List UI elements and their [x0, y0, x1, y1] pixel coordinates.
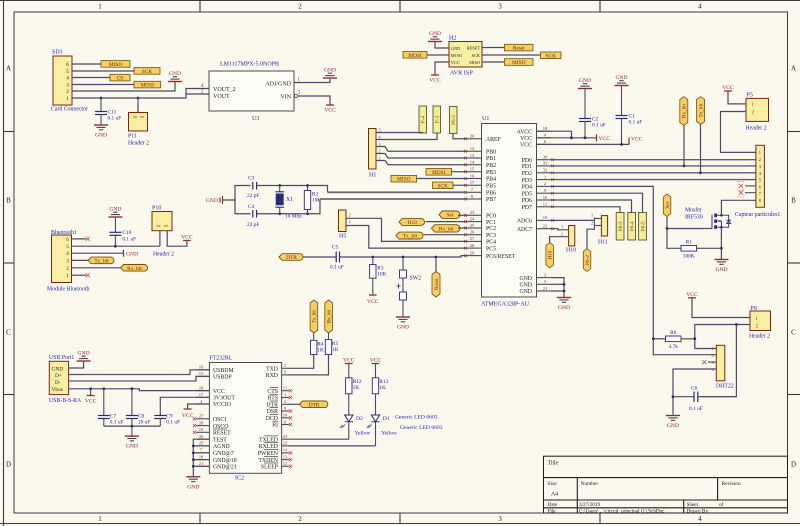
wire SD1.5 to SCK	[72, 70, 134, 72]
header H5	[339, 210, 352, 240]
wire SCK to PB5	[453, 184, 466, 186]
svg-text:USBDM: USBDM	[213, 368, 234, 374]
svg-text:0.1 uF: 0.1 uF	[592, 123, 606, 129]
svg-text:MISO: MISO	[109, 62, 123, 68]
svg-text:GND: GND	[667, 423, 679, 429]
svg-text:RXD: RXD	[266, 373, 278, 379]
junction P9.2 C6	[735, 323, 738, 326]
svg-text:Set: Set	[447, 213, 454, 219]
svg-text:Rx_blt: Rx_blt	[127, 266, 142, 272]
wire TXLED to D2	[289, 438, 349, 440]
svg-text:27: 27	[199, 414, 204, 419]
svg-text:26: 26	[470, 230, 475, 235]
svg-text:13: 13	[283, 454, 288, 459]
svg-text:GND: GND	[169, 71, 181, 77]
svg-text:PB7: PB7	[486, 197, 496, 203]
wire SD1.1 net	[72, 94, 209, 98]
svg-text:SCK: SCK	[438, 183, 449, 189]
wire H1.3 to PB0	[376, 147, 466, 152]
wire U3 ADJ to GND	[294, 78, 330, 83]
wire H1.2 to PB1	[376, 154, 466, 159]
svg-text:PD6: PD6	[522, 198, 532, 204]
svg-text:C8: C8	[138, 413, 145, 419]
svg-text:GND: GND	[109, 207, 121, 213]
svg-text:Revision: Revision	[722, 481, 741, 487]
port CS	[110, 74, 130, 81]
junction reset port	[434, 256, 437, 259]
port P6-4 vertical	[628, 213, 636, 241]
svg-text:1K: 1K	[332, 347, 339, 353]
svg-text:IC2: IC2	[235, 476, 244, 482]
wire H1.4 to P-3	[376, 133, 437, 140]
switch SW2	[397, 257, 422, 316]
svg-text:0.1 uF: 0.1 uF	[122, 237, 136, 243]
svg-text:1: 1	[759, 150, 761, 155]
capacitor C1	[537, 75, 643, 144]
port SCK avrisp	[541, 52, 562, 59]
wire Tx_blt to PC3	[424, 234, 467, 236]
svg-text:1K: 1K	[353, 385, 360, 391]
wire U3 VOUT_2 stub	[186, 89, 209, 95]
svg-text:2: 2	[66, 89, 69, 95]
wire BT.1 nc	[72, 273, 90, 277]
junction PD2 Tx	[699, 171, 702, 174]
svg-text:C5: C5	[332, 245, 339, 251]
svg-text:PB2: PB2	[486, 163, 496, 169]
connector DHT22	[711, 345, 733, 389]
svg-text:AREF: AREF	[486, 137, 502, 143]
resistor R5	[325, 340, 338, 355]
svg-text:A4: A4	[551, 491, 558, 497]
wire PD2 bus	[552, 172, 749, 174]
wire drain to capteur8	[721, 200, 756, 215]
wire H2 RESET	[482, 47, 504, 49]
svg-text:Title: Title	[548, 461, 559, 467]
svg-text:U1: U1	[482, 116, 489, 122]
title block	[544, 456, 788, 514]
svg-text:U3: U3	[252, 116, 259, 122]
port Reset vertical	[432, 257, 440, 297]
connector Capteur particules1	[735, 145, 780, 218]
svg-text:TEST: TEST	[213, 437, 227, 443]
svg-text:Rx_blt: Rx_blt	[682, 103, 688, 118]
svg-text:PD3: PD3	[522, 178, 532, 184]
svg-text:VOUT: VOUT	[213, 94, 230, 100]
svg-text:R1: R1	[686, 240, 693, 246]
svg-text:PD7: PD7	[522, 205, 532, 211]
svg-text:4.7k: 4.7k	[669, 344, 679, 350]
wire D- to USBDP	[69, 376, 210, 381]
svg-text:4: 4	[698, 3, 702, 11]
svg-text:Sheet: Sheet	[687, 502, 699, 508]
svg-text:1K: 1K	[379, 385, 386, 391]
IC2 left pins	[196, 365, 237, 471]
svg-text:Header 2: Header 2	[128, 141, 149, 147]
svg-text:5: 5	[66, 69, 69, 75]
port Rx_blt pc2	[432, 225, 460, 232]
svg-text:GND: GND	[451, 46, 461, 51]
svg-text:C6: C6	[691, 386, 698, 392]
svg-text:ATMEGA328P-AU: ATMEGA328P-AU	[481, 302, 530, 308]
svg-text:0.1 uF: 0.1 uF	[689, 406, 703, 412]
port Rx_blt vertical	[680, 97, 688, 166]
svg-text:3: 3	[498, 3, 502, 11]
wire DTR to C5	[303, 256, 336, 258]
svg-text:10 uF: 10 uF	[138, 420, 150, 426]
port Rx_blt bt	[121, 265, 148, 272]
ground BT4	[124, 250, 139, 258]
svg-text:H10: H10	[566, 248, 576, 254]
svg-text:MISO: MISO	[469, 60, 480, 65]
U1 right pins	[517, 126, 554, 295]
svg-text:PB6: PB6	[486, 191, 496, 197]
wire H11.2 to port	[587, 227, 594, 249]
svg-text:14: 14	[470, 160, 475, 165]
wire BT.6 nc	[72, 237, 90, 241]
ic IC2 FT232RL	[209, 356, 281, 482]
svg-text:C:\Users\ .. \circuit_principa: C:\Users\ .. \circuit_principal (1).SchD…	[579, 508, 665, 515]
wire PD3 bus	[552, 179, 749, 181]
svg-text:GND: GND	[519, 276, 532, 282]
svg-text:25: 25	[470, 223, 475, 228]
power VCC U3	[324, 104, 336, 113]
svg-text:X1: X1	[286, 197, 293, 203]
port MISO avrisp	[505, 59, 534, 66]
svg-text:C2: C2	[592, 116, 599, 122]
wire BT.2	[72, 267, 121, 269]
svg-text:AGND: AGND	[213, 444, 230, 450]
junction source R1	[720, 247, 723, 250]
svg-text:A: A	[791, 65, 796, 73]
svg-text:Module Bluetooth: Module Bluetooth	[47, 287, 89, 293]
wire RXLED to D1	[289, 445, 376, 447]
ground mosfet	[715, 259, 729, 273]
port MISO u1	[391, 175, 417, 182]
port SCK	[134, 68, 160, 75]
ground U3	[323, 68, 337, 78]
svg-text:18: 18	[543, 126, 548, 131]
power VCC rail	[597, 134, 611, 142]
svg-text:MISO: MISO	[397, 177, 411, 183]
svg-text:PB3: PB3	[486, 170, 496, 176]
crystal X1 16MHz	[275, 186, 302, 220]
svg-text:3: 3	[66, 83, 69, 89]
svg-text:100K: 100K	[683, 254, 695, 260]
svg-text:17: 17	[470, 180, 475, 185]
svg-text:1K: 1K	[317, 348, 324, 354]
svg-text:RI: RI	[272, 423, 278, 429]
svg-text:2: 2	[298, 515, 302, 523]
ground SW2	[396, 316, 410, 331]
svg-text:MOSI: MOSI	[432, 170, 446, 176]
resistor R12	[346, 364, 362, 394]
wire PD1 bus	[552, 165, 749, 167]
port P6-2 vertical right	[583, 249, 591, 272]
capacitor C3	[247, 176, 259, 200]
wire H10 to PC1	[426, 221, 467, 223]
port Set pc0	[439, 211, 460, 218]
svg-text:PB0: PB0	[486, 149, 496, 155]
svg-text:GND: GND	[126, 251, 138, 257]
svg-text:VCC: VCC	[429, 77, 441, 83]
svg-text:MISO: MISO	[512, 60, 526, 66]
svg-text:0.1 uF: 0.1 uF	[166, 420, 180, 426]
svg-text:P6-5: P6-5	[640, 221, 646, 231]
svg-text:P-4: P-4	[421, 115, 427, 123]
ground crystal	[206, 196, 223, 204]
wire H2 MISO	[482, 61, 504, 63]
port P-3 vertical	[433, 106, 441, 133]
svg-text:C3: C3	[248, 176, 255, 182]
svg-text:PC4: PC4	[486, 240, 496, 246]
svg-text:MOSI: MOSI	[141, 83, 155, 89]
junction gate	[666, 227, 669, 230]
svg-text:17: 17	[199, 392, 204, 397]
svg-text:GND: GND	[95, 133, 107, 139]
wire P9.2 to C6	[700, 325, 736, 397]
port SCK u1	[433, 182, 454, 189]
svg-text:C: C	[6, 329, 11, 337]
svg-text:Date: Date	[548, 502, 558, 508]
wire Set to PC0	[458, 214, 466, 216]
wire MOSI to PB3	[452, 171, 467, 173]
wire H5.1 to PC5	[346, 226, 466, 249]
port H10 vertical	[546, 243, 554, 268]
svg-text:DTR: DTR	[286, 255, 297, 261]
svg-text:GND@7: GND@7	[213, 451, 234, 457]
ground sd1	[168, 71, 182, 81]
junction reset SW2	[402, 256, 405, 259]
wire Vbus to VCC pin	[69, 389, 210, 391]
port P6-2 vertical	[450, 107, 458, 134]
svg-text:13: 13	[470, 153, 475, 158]
wire AVCC VCC rail	[537, 131, 597, 138]
svg-text:VCC: VCC	[343, 357, 355, 363]
svg-text:GND: GND	[324, 68, 336, 74]
resistor R13	[372, 364, 388, 394]
wire source	[720, 227, 722, 259]
wire H10.2 to port	[550, 237, 569, 243]
port P6-5 vertical	[639, 213, 647, 241]
svg-text:DHT22: DHT22	[716, 384, 734, 390]
svg-text:GND@21: GND@21	[213, 465, 237, 471]
svg-text:10: 10	[283, 413, 288, 418]
svg-text:VCC: VCC	[213, 389, 225, 395]
wire PD6 to port	[552, 200, 632, 213]
svg-text:CS: CS	[117, 76, 124, 82]
svg-text:MOSI: MOSI	[451, 53, 463, 58]
wire P10.2 to VCC	[167, 231, 187, 247]
wire H5.2 to PC4	[346, 218, 466, 241]
svg-text:P6-3: P6-3	[618, 221, 624, 231]
junction R6 data	[652, 337, 655, 340]
svg-text:1: 1	[98, 515, 102, 523]
svg-text:D-: D-	[55, 380, 61, 386]
svg-text:SW2: SW2	[410, 276, 422, 282]
svg-text:26: 26	[199, 434, 204, 439]
regulator U3 LM1117	[201, 62, 301, 123]
wire crystal gnd	[223, 186, 251, 201]
ground DHT	[666, 415, 680, 429]
power VCC dht	[686, 292, 698, 298]
svg-text:C4: C4	[248, 204, 255, 210]
svg-text:VCC: VCC	[324, 107, 336, 113]
svg-text:GND: GND	[715, 267, 727, 273]
svg-text:VCC: VCC	[631, 136, 643, 142]
capacitor C2	[578, 78, 606, 138]
svg-text:11: 11	[283, 386, 288, 391]
svg-text:Vbus: Vbus	[52, 387, 63, 393]
svg-text:GND: GND	[126, 444, 138, 450]
port Tx_blt vertical	[697, 97, 705, 173]
svg-text:P5: P5	[747, 92, 753, 98]
wire PD0 bus	[552, 159, 749, 161]
svg-text:20: 20	[470, 134, 475, 139]
wire BT.5 net	[72, 245, 160, 247]
svg-text:VCC: VCC	[181, 234, 193, 240]
svg-text:Header 2: Header 2	[749, 334, 770, 340]
wire U1 gnd pins	[552, 278, 565, 297]
svg-text:C: C	[791, 329, 796, 337]
power VCC R13	[370, 357, 382, 363]
ground IC2	[186, 476, 200, 490]
svg-text:Header 2: Header 2	[746, 126, 767, 132]
svg-text:VCC: VCC	[520, 143, 532, 149]
wire MISO to PB4	[417, 178, 467, 180]
connector SD1 Card Connector	[51, 50, 88, 113]
power VCC vccio	[182, 404, 210, 419]
svg-text:VCC: VCC	[599, 136, 611, 142]
wire PD7 to port	[552, 207, 621, 213]
junction cap gnd	[131, 425, 134, 428]
svg-text:31: 31	[543, 161, 548, 166]
svg-text:PD1: PD1	[522, 164, 532, 170]
svg-text:1: 1	[98, 3, 102, 11]
svg-text:R6: R6	[670, 330, 677, 336]
noerc IC2 pins	[193, 389, 292, 468]
wire DHT.4 to gnd	[673, 369, 716, 415]
wire gate to R1	[667, 229, 681, 249]
port Set vertical	[663, 194, 671, 229]
resistor R3	[370, 257, 387, 295]
wire ADC6 to H11.1	[552, 217, 602, 226]
mcu U1 ATMEGA328P-AU	[481, 116, 537, 308]
svg-text:1M: 1M	[312, 198, 320, 204]
svg-text:Rx_blt: Rx_blt	[439, 226, 454, 232]
svg-text:VCC: VCC	[182, 413, 194, 419]
svg-text:GND: GND	[579, 78, 591, 84]
svg-text:P10: P10	[152, 206, 161, 212]
U1 left pins	[464, 134, 516, 260]
svg-text:C11: C11	[108, 109, 117, 115]
svg-text:VIN: VIN	[280, 94, 291, 100]
svg-text:Card Connector: Card Connector	[51, 107, 88, 113]
junction C11	[100, 97, 103, 100]
module Bluetooth1	[47, 230, 89, 293]
svg-text:Mosfet: Mosfet	[685, 207, 702, 214]
svg-text:12: 12	[283, 461, 288, 466]
svg-text:30: 30	[543, 155, 548, 160]
capacitor C9	[154, 397, 209, 426]
svg-text:of: of	[719, 501, 724, 508]
svg-text:10K: 10K	[377, 272, 386, 278]
resistor R1	[681, 240, 722, 260]
port Rx_blt vertical ft	[325, 300, 333, 340]
port Tx_blt vertical ft	[310, 300, 318, 340]
svg-text:Reset: Reset	[513, 46, 525, 52]
svg-text:ADJ/GND: ADJ/GND	[265, 82, 291, 88]
svg-text:USB-B-S-RA: USB-B-S-RA	[49, 398, 82, 404]
svg-text:1: 1	[66, 96, 69, 102]
wire P9.2 net	[695, 325, 750, 349]
svg-text:RESET: RESET	[467, 46, 481, 51]
junction vcc rail	[570, 136, 573, 139]
led D2	[340, 394, 372, 439]
port P-4 vertical	[419, 106, 427, 133]
svg-text:14: 14	[283, 448, 288, 453]
junction C6 gnd	[672, 395, 675, 398]
svg-text:VCC: VCC	[451, 60, 460, 65]
resistor R6	[653, 330, 695, 350]
junction PD1 Rx	[683, 165, 686, 168]
wire VCC to P9.1	[692, 298, 750, 318]
ground usb	[69, 351, 91, 368]
svg-text:2: 2	[298, 3, 302, 11]
wire H1.1 to PB2	[376, 161, 466, 165]
wire SD1.2 to GND	[72, 82, 175, 92]
IC2 right pins	[258, 363, 289, 470]
svg-text:Size: Size	[548, 481, 558, 487]
svg-text:22: 22	[543, 224, 548, 229]
svg-text:27: 27	[470, 236, 475, 241]
wire BT.4 gnd	[72, 252, 124, 254]
led D1	[367, 394, 399, 446]
svg-text:Generic LED 0603: Generic LED 0603	[395, 414, 438, 420]
svg-text:18: 18	[199, 454, 204, 459]
wire MOSI to H2	[427, 54, 449, 56]
svg-text:22: 22	[283, 441, 288, 446]
svg-text:23: 23	[283, 434, 288, 439]
svg-text:MOSI: MOSI	[408, 53, 422, 59]
svg-text:D2: D2	[356, 416, 363, 422]
svg-text:PC6/RESET: PC6/RESET	[486, 254, 516, 260]
svg-text:SCK: SCK	[142, 69, 153, 75]
ground caps	[125, 426, 139, 450]
port DTR reset	[279, 254, 303, 261]
capacitor C8	[126, 389, 150, 426]
power VCC P5	[722, 85, 734, 91]
wire cap gnd rail	[104, 425, 161, 427]
header H10	[561, 224, 576, 253]
capacitor C6	[673, 386, 736, 413]
wire P5.2 to capteur1	[721, 112, 756, 153]
svg-text:10: 10	[543, 195, 548, 200]
wire BT.3	[72, 259, 89, 261]
svg-text:PC3: PC3	[486, 233, 496, 239]
port Tx_blt pc3	[396, 232, 423, 239]
wire VCC to P5.1	[728, 91, 746, 104]
junction C10	[114, 245, 117, 248]
power VCC R3	[367, 295, 379, 305]
svg-text:H2: H2	[449, 36, 456, 42]
transistor Q1 Mosfet IRF530	[685, 207, 731, 229]
port MISO	[101, 61, 130, 68]
power VCC usb	[85, 389, 97, 405]
wire capteur pin stubs	[745, 160, 756, 193]
svg-text:Capteur particules1: Capteur particules1	[735, 212, 780, 218]
svg-text:OSCI: OSCI	[213, 417, 226, 423]
svg-text:0.1 uF: 0.1 uF	[330, 265, 344, 271]
